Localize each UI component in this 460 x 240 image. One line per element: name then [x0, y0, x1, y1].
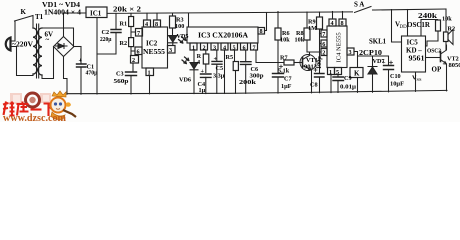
svg-text:10k: 10k	[280, 37, 290, 44]
svg-text:IC5: IC5	[407, 39, 419, 47]
svg-text:K: K	[21, 8, 27, 16]
top V+ rail	[107, 12, 353, 14]
svg-text:20k × 2: 20k × 2	[113, 6, 142, 14]
svg-text:7: 7	[253, 45, 256, 52]
svg-text:R7: R7	[280, 55, 288, 62]
faint glyphs	[10, 93, 51, 104]
svg-text:1µ: 1µ	[199, 87, 206, 94]
capacitor C2 plates	[111, 30, 121, 33]
resistor R8	[307, 12, 321, 52]
wire rail to IC3 top	[188, 13, 190, 27]
svg-text:OP: OP	[432, 66, 442, 74]
IC2 pin 1	[146, 68, 154, 76]
svg-text:5: 5	[233, 45, 236, 52]
capacitor C5 wire	[216, 50, 218, 94]
capacitor C4 plates	[201, 74, 212, 77]
transformer T1 primary coil	[33, 28, 37, 74]
wire plug to switch	[14, 21, 16, 41]
speaker YD	[445, 9, 447, 32]
svg-text:VD5: VD5	[177, 33, 189, 40]
IC4 pin 6	[321, 40, 327, 47]
capacitor C7 plates	[273, 74, 284, 78]
VD6 arrows	[182, 57, 189, 64]
IC3 pin 5	[231, 43, 238, 50]
svg-text:10k: 10k	[442, 16, 452, 23]
svg-text:7: 7	[322, 31, 325, 38]
svg-text:NE555: NE555	[143, 48, 166, 56]
wire bridge bottom vertex to ground	[64, 57, 68, 95]
svg-text:IC2: IC2	[146, 40, 158, 48]
watermark	[3, 91, 76, 124]
svg-text:1N4004 × 4: 1N4004 × 4	[44, 9, 82, 17]
SEL1 wire	[392, 10, 402, 43]
svg-text:100µ: 100µ	[316, 56, 323, 69]
OP wire	[426, 57, 440, 59]
IC4 pin 7	[321, 30, 327, 37]
svg-text:C9: C9	[344, 75, 352, 82]
resistor R4	[205, 50, 207, 73]
C7 plus	[280, 65, 283, 68]
VD5 emission arrows	[179, 37, 186, 43]
IC2 pin 4	[144, 20, 151, 27]
svg-text:2: 2	[132, 57, 135, 64]
capacitor C6 plates	[241, 62, 252, 65]
IC1 ground wire	[96, 18, 98, 95]
svg-text:3: 3	[349, 49, 352, 56]
LED VD5	[169, 36, 178, 46]
svg-text:R2: R2	[448, 26, 456, 33]
capacitor C6 wire	[245, 50, 247, 93]
IC3 pin 3	[211, 43, 218, 50]
svg-text:C10: C10	[390, 73, 401, 80]
svg-text:10µF: 10µF	[390, 80, 404, 87]
svg-text:C3: C3	[116, 71, 124, 78]
svg-text:IC3 CX20106A: IC3 CX20106A	[198, 32, 248, 40]
capacitor C2 wire	[97, 13, 116, 54]
IC2 box	[142, 27, 168, 68]
resistor R7	[284, 60, 294, 65]
svg-text:C2: C2	[102, 29, 110, 36]
rail after SA	[375, 9, 446, 10]
svg-text:300p: 300p	[250, 73, 265, 80]
svg-text:K: K	[354, 70, 360, 78]
IC4 pin 5	[335, 68, 342, 75]
capacitor C3 wire	[131, 63, 133, 94]
IC4 pin 8	[339, 19, 346, 26]
wire bridge right vertex to C1 line	[74, 46, 81, 48]
IC3 pin 1	[190, 43, 197, 50]
wire to pin 6	[131, 50, 135, 52]
svg-text:IC1: IC1	[90, 10, 102, 18]
svg-text:1µF: 1µF	[281, 83, 292, 90]
svg-text:8050: 8050	[449, 62, 460, 69]
mascot	[51, 91, 77, 120]
svg-text:S A: S A	[354, 1, 364, 9]
svg-text:7: 7	[137, 30, 140, 37]
resistor R3	[172, 13, 174, 35]
IC3 pin4 ground wire	[224, 50, 226, 94]
svg-text:3.3µ: 3.3µ	[213, 73, 225, 80]
svg-text:OSC1R: OSC1R	[407, 21, 431, 29]
IC2 pin 8	[154, 20, 161, 27]
photodiode VD6	[190, 63, 198, 70]
svg-text:KD –: KD –	[406, 47, 422, 55]
svg-text:R5: R5	[226, 54, 234, 61]
IC3 pin 7	[251, 43, 258, 50]
svg-text:DD: DD	[400, 25, 408, 30]
IC4 pin 1	[328, 68, 335, 75]
svg-text:C5: C5	[216, 65, 224, 72]
bridge inner diode	[56, 44, 68, 49]
svg-text:3: 3	[213, 45, 216, 52]
svg-text:560p: 560p	[114, 78, 130, 85]
IC3 box	[187, 27, 258, 43]
svg-text:4: 4	[223, 45, 226, 52]
svg-text:2CP10: 2CP10	[359, 49, 383, 57]
IC2 pin 6	[135, 47, 142, 55]
svg-text:~220V: ~220V	[12, 41, 33, 49]
bridge rectifier VD1-VD4 diamond	[54, 37, 75, 57]
IC2 pin 2	[131, 56, 139, 64]
VDD wire	[407, 10, 409, 37]
svg-text:1: 1	[329, 69, 332, 76]
OSC1 wire + 240k resistor	[421, 20, 438, 37]
IC3 pin 6	[241, 43, 248, 50]
svg-text:6: 6	[243, 45, 246, 52]
IC2 pin 7	[136, 29, 143, 37]
IC4 pin 3	[347, 48, 354, 55]
svg-text:8: 8	[260, 28, 263, 35]
capacitor C8 plates	[315, 74, 325, 78]
svg-text:10k: 10k	[295, 37, 305, 44]
IC5 box	[402, 36, 426, 72]
svg-text:4: 4	[197, 59, 200, 66]
resistor R5	[235, 50, 236, 93]
svg-text:R1: R1	[120, 21, 128, 28]
svg-text:T1: T1	[35, 13, 44, 21]
IC3 pin 8	[258, 28, 265, 35]
resistor R6	[277, 12, 279, 63]
svg-text:2: 2	[203, 45, 206, 52]
svg-text:C8: C8	[310, 82, 318, 89]
IC4 pin 2	[321, 49, 327, 56]
svg-text:0.01µ: 0.01µ	[340, 84, 356, 91]
svg-text:R2: R2	[120, 40, 128, 47]
red CJK text 维库一下 (drawn strokes)	[3, 102, 56, 117]
wire primary bottom loop	[17, 47, 34, 76]
switch SA	[355, 7, 376, 13]
IC3 pin7 output wire	[256, 50, 284, 63]
resistor R2	[129, 38, 134, 47]
transformer T1 secondary coil	[38, 28, 42, 75]
resistor R9	[320, 12, 322, 34]
svg-text:6: 6	[322, 41, 325, 48]
relay K box	[350, 68, 363, 78]
svg-text:8: 8	[155, 21, 158, 28]
svg-text:C7: C7	[284, 76, 292, 83]
svg-text:IC4 NE555: IC4 NE555	[336, 32, 343, 63]
IC2 pin 3	[168, 46, 176, 54]
svg-text:+: +	[79, 57, 83, 64]
wire secondary bottom to bridge left vertex	[42, 47, 54, 79]
svg-text:~: ~	[46, 36, 50, 44]
capacitor C3 plates	[126, 72, 137, 76]
svg-text:6: 6	[137, 48, 140, 55]
svg-text:1: 1	[192, 45, 195, 52]
wire pin8 to rail	[265, 13, 267, 31]
svg-text:4: 4	[331, 20, 334, 27]
svg-text:5.1k: 5.1k	[278, 67, 290, 74]
svg-text:5: 5	[336, 69, 339, 76]
svg-text:+: +	[201, 68, 205, 75]
svg-text:SS: SS	[417, 77, 423, 82]
transistor VT2	[440, 52, 442, 62]
resistor R1	[130, 13, 132, 32]
svg-text:SKL1: SKL1	[369, 38, 386, 46]
svg-text:3: 3	[169, 47, 172, 54]
wire pin7 to pin6 to C8	[320, 34, 322, 74]
plug P	[6, 38, 11, 51]
Vss wire	[415, 72, 417, 91]
IC4 box	[327, 26, 347, 68]
transformer core	[37, 24, 39, 78]
ground rail	[67, 90, 447, 93]
capacitor C9 plates	[333, 77, 344, 81]
wire bridge top vertex to IC1 input	[64, 13, 87, 37]
svg-text:+: +	[382, 59, 386, 66]
svg-text:2: 2	[322, 50, 325, 57]
svg-text:8: 8	[341, 20, 344, 27]
IC4 pin3 output wire	[354, 52, 389, 57]
svg-text:4: 4	[145, 21, 148, 28]
svg-text:www.dzsc.com: www.dzsc.com	[3, 113, 66, 122]
svg-text:9561: 9561	[409, 55, 426, 63]
svg-text:200k: 200k	[239, 79, 257, 86]
IC3 pin 2	[201, 43, 208, 50]
seal	[26, 93, 40, 107]
C8 plus	[314, 69, 317, 72]
svg-text:VD6: VD6	[179, 77, 191, 84]
svg-text:240k: 240k	[418, 12, 437, 20]
wire R1/R2 junction to pin 7	[131, 32, 136, 38]
diode VD7	[368, 56, 377, 92]
capacitor C7 wire	[277, 63, 279, 94]
IC4 pin 4	[329, 19, 336, 26]
capacitor C1 plates	[77, 64, 87, 67]
svg-text:220µ: 220µ	[100, 36, 112, 43]
svg-text:100: 100	[175, 23, 184, 30]
C10 plus	[390, 61, 393, 64]
capacitor C10	[388, 56, 390, 92]
svg-text:1: 1	[148, 69, 151, 76]
IC1 box	[86, 7, 107, 18]
svg-text:470µ: 470µ	[86, 70, 98, 77]
svg-text:1M: 1M	[308, 25, 317, 32]
svg-text:+: +	[214, 55, 218, 62]
photodiode VD6 wire	[193, 50, 195, 94]
svg-text:OSC2: OSC2	[427, 48, 441, 55]
capacitor C1 wire	[80, 47, 82, 95]
IC3 pin 4	[221, 43, 228, 50]
wire secondary top to bridge right vertex	[42, 28, 74, 47]
capacitor C9 wire	[337, 75, 339, 93]
transistor VT1	[300, 55, 316, 71]
switch K	[15, 16, 34, 29]
capacitor C5 plates	[212, 61, 222, 64]
